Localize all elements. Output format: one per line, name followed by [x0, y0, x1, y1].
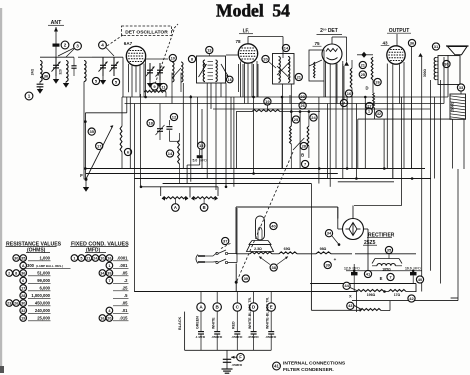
svg-text:40: 40	[271, 223, 276, 228]
svg-text:.0001: .0001	[117, 256, 128, 261]
svg-text:X: X	[349, 293, 352, 298]
svg-text:25: 25	[361, 72, 366, 77]
svg-text:35: 35	[387, 247, 392, 252]
svg-text:1: 1	[28, 94, 31, 99]
svg-text:16: 16	[107, 256, 111, 260]
svg-text:MFD: MFD	[353, 267, 361, 271]
svg-text:RED: RED	[232, 321, 236, 329]
svg-text:196Ω: 196Ω	[367, 293, 376, 297]
svg-text:.25: .25	[122, 286, 128, 291]
svg-text:INTERNAL CONNECTIONS: INTERNAL CONNECTIONS	[283, 361, 346, 367]
svg-text:MFD: MFD	[414, 267, 422, 271]
svg-text:3: 3	[76, 44, 79, 49]
svg-text:1,000,000: 1,000,000	[31, 293, 50, 298]
svg-text:2.3Ω: 2.3Ω	[254, 247, 262, 251]
svg-text:23: 23	[7, 301, 11, 305]
svg-text:12: 12	[172, 114, 177, 119]
svg-text:GREEN: GREEN	[195, 316, 199, 329]
svg-text:5: 5	[80, 256, 82, 260]
svg-text:39: 39	[325, 262, 330, 267]
svg-text:.05MFD: .05MFD	[265, 335, 277, 339]
svg-text:35: 35	[21, 256, 25, 260]
svg-text:28: 28	[302, 143, 307, 148]
svg-text:B: B	[203, 205, 206, 210]
svg-text:42: 42	[409, 296, 414, 301]
svg-text:1,000: 1,000	[40, 256, 51, 261]
svg-text:37: 37	[223, 238, 228, 243]
svg-text:19: 19	[21, 316, 25, 320]
svg-text:36: 36	[44, 73, 49, 78]
svg-text:18: 18	[148, 120, 153, 125]
svg-text:35: 35	[89, 129, 94, 134]
svg-text:F: F	[239, 355, 242, 360]
svg-text:F: F	[80, 173, 83, 178]
svg-text:43: 43	[382, 41, 388, 46]
svg-text:1: 1	[108, 264, 110, 268]
svg-text:16: 16	[228, 78, 232, 82]
svg-text:10.0: 10.0	[405, 267, 412, 271]
svg-text:12.0: 12.0	[344, 267, 351, 271]
svg-text:.05: .05	[122, 271, 128, 276]
svg-text:24: 24	[311, 115, 316, 120]
svg-text:20: 20	[107, 316, 111, 320]
svg-text:(LAMP BALL. RES.): (LAMP BALL. RES.)	[36, 264, 63, 268]
svg-text:32: 32	[377, 112, 381, 116]
svg-text:E: E	[380, 276, 383, 281]
svg-text:5.0: 5.0	[193, 158, 198, 162]
svg-text:7: 7	[108, 279, 110, 283]
svg-text:39: 39	[107, 271, 111, 275]
svg-text:300: 300	[27, 263, 35, 268]
svg-text:450,000: 450,000	[35, 301, 51, 306]
svg-text:30: 30	[444, 61, 449, 66]
svg-text:6,000: 6,000	[40, 286, 51, 291]
svg-text:38: 38	[271, 265, 276, 270]
svg-text:41: 41	[366, 271, 371, 276]
svg-text:34: 34	[327, 231, 332, 236]
svg-text:99,000: 99,000	[37, 278, 50, 283]
svg-text:41: 41	[274, 364, 279, 369]
svg-text:WHITE-BLACK TR.: WHITE-BLACK TR.	[266, 297, 270, 329]
svg-text:10: 10	[100, 256, 104, 260]
svg-text:21: 21	[297, 74, 302, 79]
svg-text:43: 43	[348, 303, 353, 308]
svg-text:FILTER CONDENSER.: FILTER CONDENSER.	[283, 367, 334, 373]
svg-text:+: +	[334, 257, 337, 262]
svg-text:240,000: 240,000	[35, 308, 51, 313]
svg-text:B: B	[301, 153, 304, 158]
svg-text:21: 21	[86, 256, 90, 260]
svg-text:.015: .015	[119, 316, 128, 321]
svg-text:320: 320	[59, 69, 63, 75]
svg-text:10: 10	[171, 55, 176, 60]
svg-text:6A7: 6A7	[124, 41, 133, 46]
svg-text:DET OSCILLATOR: DET OSCILLATOR	[125, 30, 168, 36]
svg-text:30: 30	[14, 256, 18, 260]
svg-text:17Ω: 17Ω	[394, 293, 401, 297]
svg-text:WHITE-BLACK TR.: WHITE-BLACK TR.	[248, 297, 252, 329]
svg-text:24Ω: 24Ω	[31, 68, 35, 75]
svg-text:20: 20	[263, 56, 268, 61]
svg-text:.001: .001	[119, 263, 128, 268]
svg-text:.1 MFD: .1 MFD	[195, 335, 206, 339]
svg-text:.05MFD: .05MFD	[248, 335, 260, 339]
svg-text:BLACK: BLACK	[178, 316, 182, 330]
svg-text:33: 33	[459, 85, 464, 90]
svg-text:300Ω: 300Ω	[423, 68, 427, 77]
svg-text:A: A	[174, 205, 177, 210]
svg-text:51,000: 51,000	[37, 271, 50, 276]
svg-text:2: 2	[64, 43, 67, 48]
svg-text:1: 1	[368, 110, 370, 114]
svg-text:1: 1	[73, 256, 75, 260]
svg-text:A: A	[22, 264, 25, 268]
svg-text:MFD: MFD	[200, 158, 208, 162]
svg-text:25: 25	[294, 117, 299, 122]
svg-text:17: 17	[21, 286, 25, 290]
svg-text:E: E	[270, 305, 273, 310]
svg-text:36: 36	[410, 40, 415, 45]
svg-text:2000Ω: 2000Ω	[451, 102, 455, 113]
svg-text:36: 36	[21, 271, 25, 275]
svg-text:23: 23	[300, 94, 305, 99]
svg-text:2²º DET: 2²º DET	[320, 28, 338, 34]
svg-text:8: 8	[15, 271, 17, 275]
svg-text:25,000: 25,000	[37, 316, 50, 321]
svg-text:32: 32	[21, 309, 25, 313]
svg-text:98Ω: 98Ω	[320, 247, 327, 251]
svg-text:26: 26	[375, 79, 380, 84]
svg-text:.05: .05	[122, 301, 128, 306]
svg-text:26: 26	[14, 301, 18, 305]
svg-text:Model 54: Model 54	[216, 1, 290, 21]
svg-text:21: 21	[361, 62, 366, 67]
svg-text:75: 75	[314, 41, 320, 46]
svg-text:16: 16	[347, 91, 352, 96]
svg-text:16: 16	[100, 316, 104, 320]
svg-text:.05MFD: .05MFD	[232, 363, 244, 367]
svg-text:39: 39	[244, 276, 249, 281]
svg-text:6: 6	[22, 279, 24, 283]
svg-text:31: 31	[434, 44, 439, 49]
svg-text:30: 30	[21, 301, 25, 305]
svg-text:4: 4	[101, 43, 104, 48]
svg-text:.05MFD: .05MFD	[231, 335, 243, 339]
svg-text:.05MFD: .05MFD	[211, 335, 223, 339]
svg-text:28: 28	[21, 294, 25, 298]
svg-text:44: 44	[344, 283, 349, 288]
svg-text:2: 2	[8, 271, 10, 275]
svg-text:D: D	[365, 86, 368, 91]
svg-text:40: 40	[418, 277, 423, 282]
svg-text:69Ω: 69Ω	[284, 247, 291, 251]
svg-text:78: 78	[235, 39, 241, 44]
svg-text:13: 13	[207, 47, 212, 52]
svg-text:14: 14	[168, 151, 173, 156]
svg-text:.01: .01	[122, 308, 128, 313]
svg-text:15: 15	[199, 143, 204, 148]
svg-text:14: 14	[284, 45, 289, 50]
svg-text:WHITE: WHITE	[212, 317, 216, 329]
